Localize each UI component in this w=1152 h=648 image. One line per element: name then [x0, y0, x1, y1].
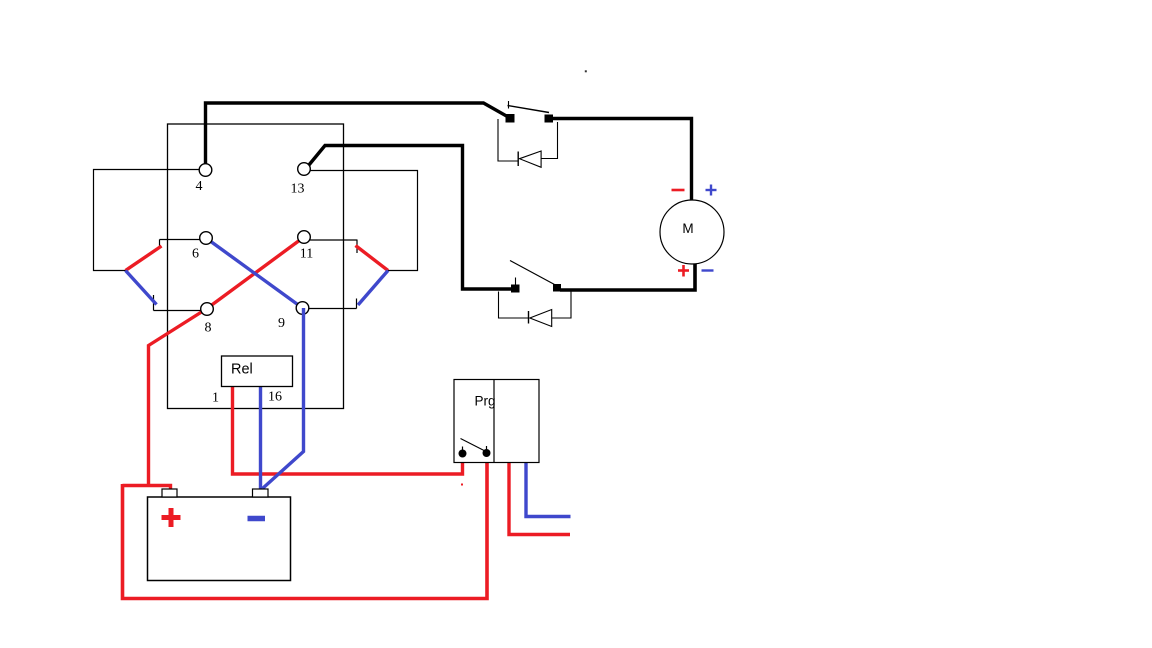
Prg contact dot left — [459, 450, 467, 458]
blue wire: Prg box bottom — [526, 463, 571, 517]
Prg contact dot right — [483, 449, 491, 457]
relay outline box — [168, 124, 344, 409]
wire pin4 left loop — [94, 170, 201, 271]
red wire: Rel pin1 to Prg left dot — [233, 386, 463, 474]
Prg switch blade — [461, 439, 487, 452]
Rel box — [222, 356, 293, 387]
wire pin9 stub — [308, 308, 357, 310]
wire pin6 stub — [160, 239, 201, 241]
diode D2 triangle — [530, 310, 552, 327]
blue wire: pin6 to pin9 — [206, 238, 303, 308]
svg-text:4: 4 — [196, 179, 203, 194]
switch S1 pivot tick — [508, 101, 510, 109]
svg-text:1: 1 — [212, 391, 219, 406]
thick wire S1 to motor top — [551, 119, 692, 201]
svg-text:16: 16 — [268, 390, 282, 405]
motor M circle — [660, 200, 724, 264]
pin 13 circle — [298, 163, 311, 176]
red wire: contact left top diagonal — [126, 246, 162, 271]
pin 4 circle — [199, 164, 212, 177]
motor top minus (red) — [672, 189, 685, 192]
contact tick 11 — [356, 240, 358, 254]
red wire: contact right top diagonal — [356, 246, 389, 271]
pin 6 circle — [200, 232, 213, 245]
switch S2 blade — [510, 261, 555, 285]
battery plus symbol — [162, 515, 181, 520]
switch S1 blade — [508, 106, 550, 113]
motor bottom minus (blue) — [702, 269, 714, 271]
pin 8 circle — [201, 303, 214, 316]
battery minus symbol — [248, 516, 266, 522]
switch S1 pad right — [545, 115, 554, 123]
contact tick 9 — [356, 299, 358, 309]
motor bottom plus (red) — [678, 269, 689, 272]
wire pin13 right loop — [310, 171, 418, 271]
battery box — [148, 497, 291, 581]
switch S2 pad right — [553, 284, 561, 292]
thick wire S2 to motor bottom — [560, 263, 695, 291]
Prg box — [454, 380, 539, 463]
blue wire: Rel pin16 down to battery minus — [259, 384, 262, 490]
svg-text:Prg: Prg — [475, 394, 496, 409]
diode D2 cathode bar — [528, 311, 530, 324]
red wire: Prg box bottom — [509, 463, 570, 535]
svg-text:Rel: Rel — [231, 362, 253, 378]
Prg divider — [493, 380, 495, 463]
wire pin8 stub — [154, 310, 202, 312]
switch S2 pivot tick — [515, 278, 517, 285]
svg-text:8: 8 — [205, 321, 212, 336]
stray red dot — [461, 484, 463, 486]
stray dark dot — [585, 70, 587, 72]
red wire: battery plus feed — [123, 486, 171, 493]
red wire: pin11 to pin8 to battery — [149, 237, 305, 487]
blue wire: contact right bottom diagonal — [358, 271, 388, 306]
motor top plus (blue) — [706, 189, 717, 191]
diode D2 loop wires — [499, 292, 529, 319]
diode D1 cathode bar — [517, 152, 519, 167]
diode D1 triangle — [520, 151, 542, 167]
thick wire pin13 to switch S2 — [309, 146, 512, 290]
svg-text:13: 13 — [291, 182, 305, 197]
switch S1 pad left — [506, 114, 515, 123]
svg-text:9: 9 — [278, 316, 285, 331]
pin 9 circle — [296, 302, 309, 315]
blue wire: pin9 down to battery minus — [263, 308, 304, 489]
diode D1 loop wires — [498, 119, 518, 161]
battery terminal bump plus — [162, 489, 177, 497]
contact tick 6 — [159, 240, 161, 248]
thick wire pin4 to switch S1 — [206, 103, 511, 166]
battery terminal bump minus — [253, 489, 269, 497]
svg-text:M: M — [682, 221, 693, 236]
svg-text:6: 6 — [192, 247, 199, 262]
blue wire: contact left bottom diagonal — [126, 271, 157, 305]
svg-text:11: 11 — [300, 247, 313, 262]
pin 11 circle — [298, 231, 311, 244]
switch S2 pad left — [511, 285, 520, 293]
red wire: big bottom loop to Prg right dot — [123, 456, 488, 599]
contact tick 8 — [153, 295, 155, 311]
wire pin11 stub — [310, 239, 357, 241]
